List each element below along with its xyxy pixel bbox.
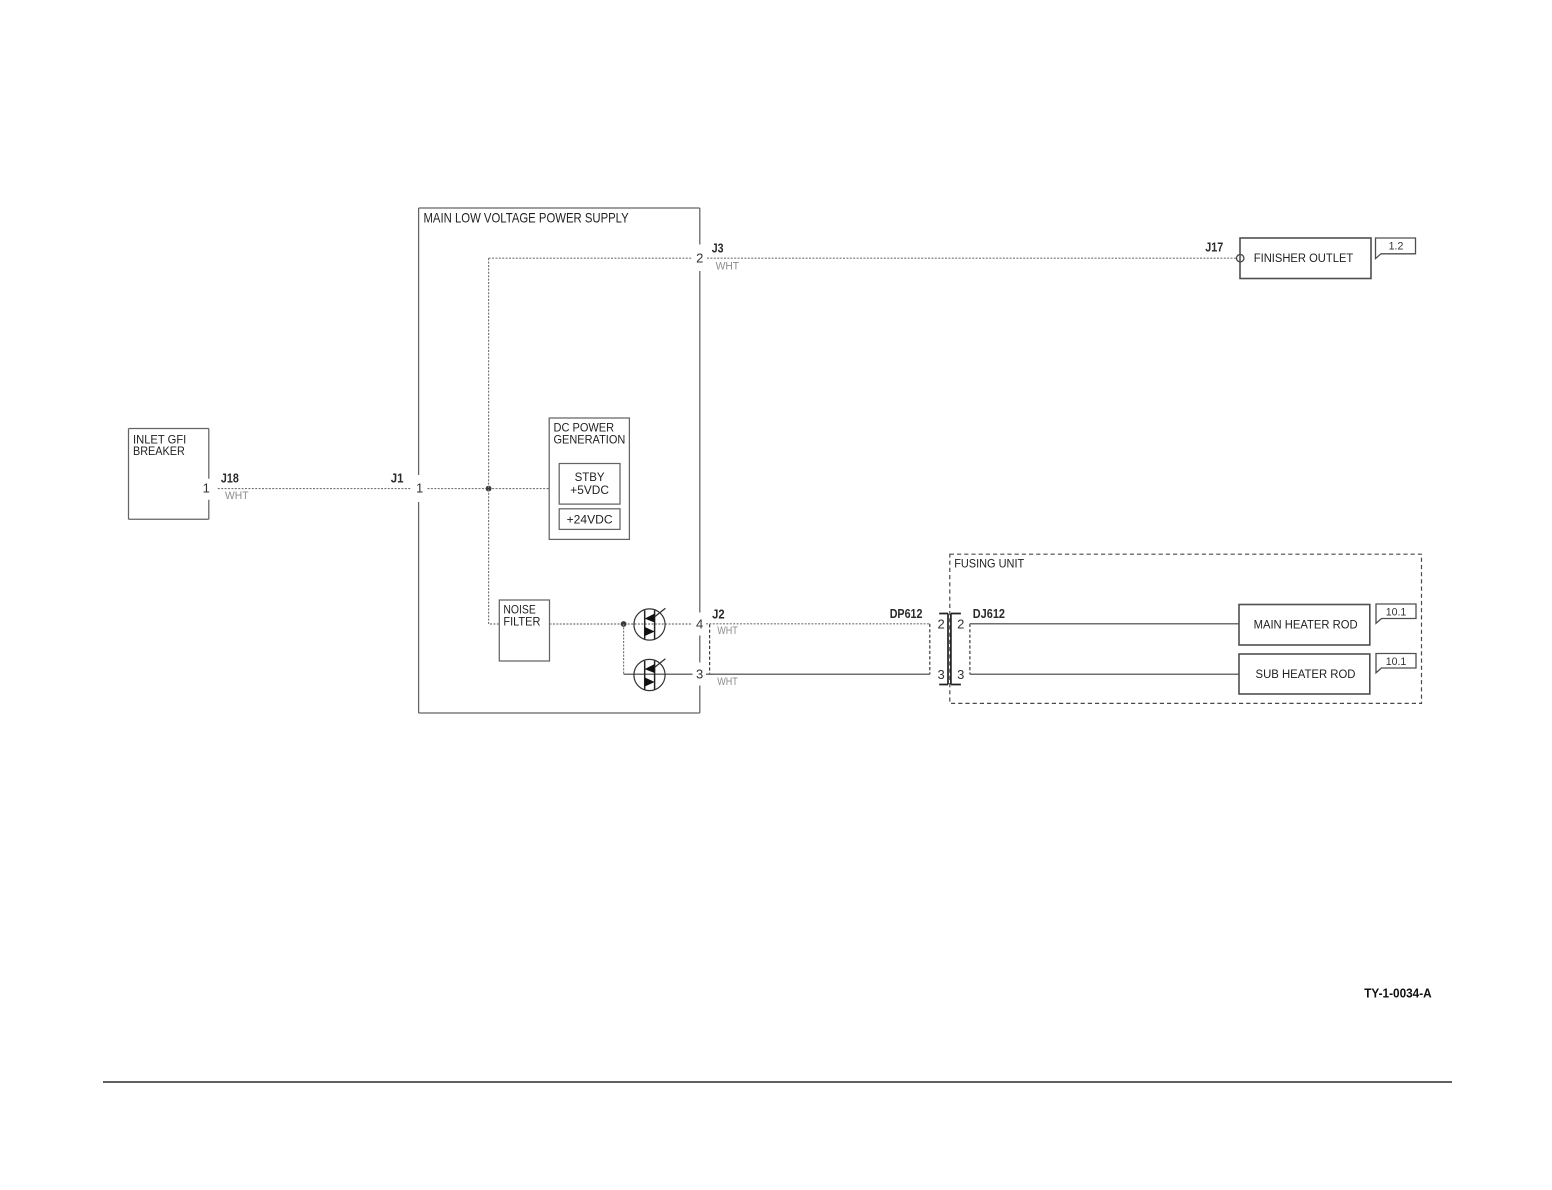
svg-text:J17: J17	[1205, 240, 1223, 255]
wire: J3 to J17	[707, 257, 1236, 259]
connector dashed line DP612	[929, 624, 931, 674]
svg-text:MAIN HEATER ROD: MAIN HEATER ROD	[1254, 617, 1358, 631]
box: MAIN LOW VOLTAGE POWER SUPPLY	[419, 208, 700, 713]
svg-text:2: 2	[696, 251, 703, 266]
svg-text:MAIN LOW VOLTAGE POWER SUPPLY: MAIN LOW VOLTAGE POWER SUPPLY	[424, 211, 629, 226]
box: DC POWER GENERATION	[549, 418, 629, 539]
node: junction triac branch	[621, 621, 627, 627]
svg-text:WHT: WHT	[717, 676, 738, 688]
svg-text:WHT: WHT	[225, 490, 249, 502]
svg-text:3: 3	[957, 667, 964, 682]
wire: DJ612 pin2 to main heater rod	[970, 623, 1239, 625]
box: INLET GFI BREAKER	[129, 429, 209, 520]
svg-text:1: 1	[416, 481, 423, 496]
flag 1.2	[1376, 238, 1416, 259]
svg-text:WHT: WHT	[716, 260, 740, 272]
flag 10.1 (sub heater)	[1376, 654, 1416, 673]
wire: J18 to J1	[218, 488, 412, 490]
wire: J2 pin3 to DP612	[706, 673, 930, 675]
svg-text:DJ612: DJ612	[973, 606, 1005, 621]
wire: J1 into supply	[428, 488, 550, 490]
box: +24VDC	[559, 509, 620, 530]
svg-text:3: 3	[696, 667, 703, 682]
terminal circle J17	[1237, 255, 1244, 262]
svg-text:SUB HEATER ROD: SUB HEATER ROD	[1256, 667, 1356, 681]
svg-text:J1: J1	[391, 470, 404, 485]
box: FINISHER OUTLET	[1240, 238, 1371, 279]
svg-text:+24VDC: +24VDC	[567, 512, 613, 526]
svg-text:TY-1-0034-A: TY-1-0034-A	[1364, 986, 1432, 1001]
triac Q1	[634, 608, 666, 640]
svg-text:3: 3	[937, 667, 944, 682]
svg-text:4: 4	[696, 616, 703, 631]
svg-text:1: 1	[203, 481, 210, 496]
svg-text:10.1: 10.1	[1386, 656, 1407, 668]
bottom rule	[103, 1081, 1452, 1083]
connector dashed line J2	[709, 624, 711, 674]
connector dashed line DJ612	[969, 624, 971, 674]
svg-text:GENERATION: GENERATION	[554, 432, 626, 446]
svg-text:J18: J18	[221, 470, 239, 485]
svg-text:STBY: STBY	[575, 470, 605, 484]
svg-text:FILTER: FILTER	[503, 614, 540, 628]
svg-text:10.1: 10.1	[1386, 606, 1407, 618]
wire: vertical bus J3 to noise filter	[489, 258, 500, 624]
svg-text:2: 2	[957, 617, 964, 632]
wire: noise filter to J2 pin 4	[550, 623, 693, 625]
svg-text:J3: J3	[712, 240, 724, 255]
flag 10.1 (main heater)	[1376, 604, 1416, 623]
svg-text:DP612: DP612	[890, 606, 923, 621]
box: MAIN HEATER ROD	[1239, 605, 1370, 646]
wire: branch down	[623, 624, 625, 674]
box: FUSING UNIT (dashed)	[950, 554, 1422, 703]
svg-text:1.2: 1.2	[1389, 241, 1404, 253]
wire: J2 pin4 to DP612	[706, 623, 930, 625]
svg-text:2: 2	[937, 617, 944, 632]
box: SUB HEATER ROD	[1239, 654, 1370, 694]
triac Q2	[634, 659, 666, 691]
connector mating bracket DP612/DJ612	[939, 614, 961, 685]
box: STBY +5VDC	[559, 464, 620, 505]
wire: lower branch to J2 pin 3	[624, 673, 693, 675]
svg-text:BREAKER: BREAKER	[133, 444, 185, 458]
box: NOISE FILTER	[499, 600, 549, 661]
svg-text:WHT: WHT	[717, 625, 738, 637]
svg-text:FUSING UNIT: FUSING UNIT	[954, 556, 1024, 570]
wire: J3 inside supply	[489, 257, 693, 259]
svg-text:J2: J2	[712, 606, 725, 621]
node: junction J1 bus	[486, 486, 492, 492]
wire: DJ612 pin3 to sub heater rod	[970, 673, 1239, 675]
svg-text:FINISHER OUTLET: FINISHER OUTLET	[1254, 251, 1354, 265]
svg-text:+5VDC: +5VDC	[570, 483, 609, 497]
